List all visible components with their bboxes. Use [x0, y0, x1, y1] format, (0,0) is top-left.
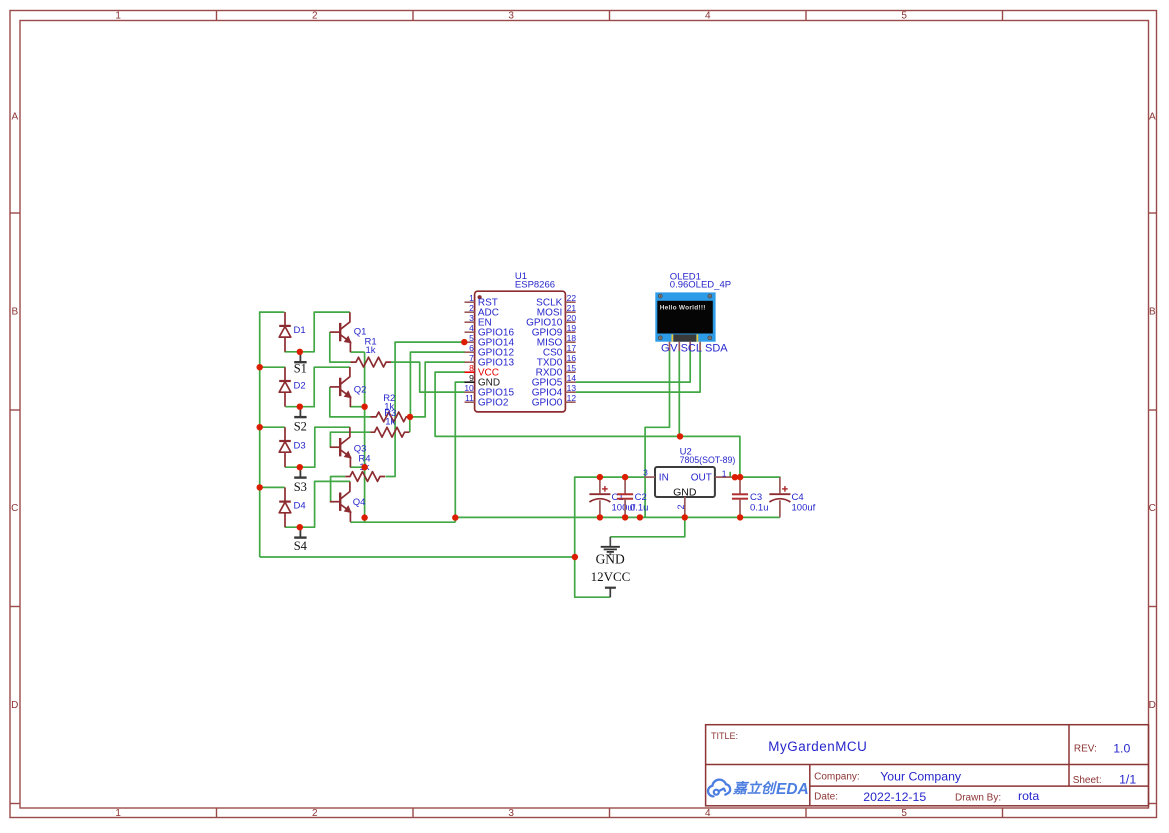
svg-text:GPIO0: GPIO0 — [532, 398, 563, 409]
svg-text:1/1: 1/1 — [1119, 773, 1136, 787]
transistor Q2 — [330, 367, 367, 407]
svg-text:2: 2 — [312, 11, 318, 22]
svg-text:S4: S4 — [294, 539, 308, 553]
svg-text:TITLE:: TITLE: — [711, 731, 738, 741]
svg-text:3: 3 — [508, 808, 514, 819]
wire rail to D4 — [259, 486, 285, 488]
U1 pin 11 GPIO2 — [465, 393, 509, 409]
wire D3 node to Q3 collector — [285, 427, 350, 467]
svg-text:GND: GND — [596, 552, 625, 567]
U1 pin 6 GPIO12 — [465, 343, 515, 359]
svg-text:Company:: Company: — [814, 772, 860, 783]
svg-text:13: 13 — [567, 383, 577, 393]
svg-text:1.0: 1.0 — [1113, 741, 1130, 755]
wire R2 node to pin7 GPIO13 — [410, 362, 466, 417]
U1 pin 9 GND — [465, 373, 501, 389]
wire R3 up to R2 node — [409, 417, 411, 432]
svg-text:5: 5 — [469, 333, 474, 343]
U1 pin 18 MISO — [537, 333, 577, 349]
U1 pin 7 GPIO13 — [465, 353, 515, 369]
svg-text:1: 1 — [469, 293, 474, 303]
power symbol 12VCC — [591, 569, 631, 597]
wire OLED G to ground rail — [645, 351, 669, 517]
capacitor C4 100uf (polarized) — [769, 477, 815, 517]
diode D4 — [279, 487, 305, 527]
junction dots — [257, 339, 744, 560]
svg-text:20: 20 — [567, 313, 577, 323]
wire GPIO5 to OLED SCL — [576, 351, 691, 382]
wire Q2 base to R2 — [330, 387, 371, 417]
U1 pin 8 VCC — [465, 363, 500, 379]
wire Q4 emitter run — [350, 521, 455, 523]
connector S1 — [294, 352, 307, 376]
op-amp U1 ESP8266 body — [475, 271, 566, 412]
svg-text:OUT: OUT — [691, 473, 712, 484]
U1 pin 17 CS0 — [543, 343, 576, 359]
svg-text:嘉立创: 嘉立创 — [732, 780, 778, 796]
svg-text:8: 8 — [469, 363, 474, 373]
transistor Q3 — [330, 427, 367, 467]
svg-text:rota: rota — [1018, 789, 1039, 803]
svg-text:SCL: SCL — [681, 343, 702, 355]
svg-text:D1: D1 — [294, 325, 306, 336]
svg-text:D: D — [11, 700, 18, 711]
U1 pin 3 EN — [465, 313, 492, 329]
svg-text:ESP8266: ESP8266 — [515, 279, 555, 290]
U1 pin 16 TXD0 — [537, 353, 577, 369]
U1 pin 1 RST — [465, 293, 498, 309]
svg-text:D4: D4 — [294, 501, 306, 512]
svg-text:V: V — [670, 343, 678, 355]
U1 pin 15 RXD0 — [536, 363, 577, 379]
svg-text:0.1u: 0.1u — [630, 502, 649, 513]
svg-text:Sheet:: Sheet: — [1073, 775, 1102, 786]
wire GPIO4 to OLED SDA — [576, 351, 701, 392]
U1 pin 20 GPIO10 — [526, 313, 576, 329]
svg-text:18: 18 — [567, 333, 577, 343]
regulator U2 7805(SOT-89) body — [655, 446, 735, 498]
title block — [706, 725, 1149, 806]
svg-text:1k: 1k — [366, 345, 376, 356]
svg-text:11: 11 — [465, 393, 474, 403]
svg-text:A: A — [1149, 112, 1156, 123]
svg-text:Your Company: Your Company — [880, 770, 962, 784]
U2 pin 1 OUT — [715, 468, 731, 478]
U2 pin 2 GND — [676, 497, 686, 518]
svg-text:B: B — [1149, 307, 1156, 318]
U1 pin 12 GPIO0 — [532, 393, 577, 409]
svg-text:D: D — [1149, 700, 1156, 711]
svg-text:D3: D3 — [294, 440, 306, 451]
wire rail to D3 — [259, 426, 285, 428]
svg-text:22: 22 — [567, 293, 577, 303]
wire rail to D1 — [259, 311, 285, 313]
wire R1 to pin10 GPIO15 — [391, 362, 465, 392]
svg-text:S2: S2 — [294, 420, 307, 434]
svg-text:17: 17 — [567, 343, 577, 353]
connector S2 — [294, 407, 307, 434]
capacitor C2 0.1u — [617, 477, 648, 517]
wire R4 to pin5 GPIO14 — [385, 342, 464, 476]
svg-text:2022-12-15: 2022-12-15 — [863, 790, 926, 804]
svg-text:D2: D2 — [294, 380, 306, 391]
U1 pin 5 GPIO14 — [465, 333, 515, 349]
svg-text:G: G — [661, 343, 670, 355]
wire Q2 emitter to bus — [350, 406, 365, 408]
U1 pin 2 ADC — [465, 303, 500, 319]
svg-text:MyGardenMCU: MyGardenMCU — [768, 739, 867, 754]
svg-text:6: 6 — [469, 343, 474, 353]
svg-text:Date:: Date: — [814, 792, 838, 803]
svg-text:B: B — [11, 307, 18, 318]
wire ground rail under caps — [455, 516, 780, 518]
svg-text:21: 21 — [567, 303, 577, 313]
display module OLED1 0.96OLED_4P — [655, 272, 731, 342]
wire 7805 pin2 to GND symbol — [610, 517, 685, 536]
wire D1 node to Q1 collector — [284, 312, 350, 352]
transistor Q1 — [330, 312, 367, 352]
diode D1 — [279, 312, 305, 352]
svg-text:2: 2 — [469, 303, 474, 313]
U2 pin 3 IN — [643, 467, 655, 477]
wire stub near pin1 — [729, 472, 731, 477]
svg-text:C: C — [1149, 503, 1156, 514]
U1 pin 21 MOSI — [537, 303, 577, 319]
wire pin9 GND down — [455, 382, 465, 522]
U1 pin 14 GPIO5 — [532, 373, 577, 389]
diode D2 — [279, 367, 305, 407]
wire D4 node to Q4 collector — [285, 481, 351, 527]
svg-text:2: 2 — [676, 504, 686, 509]
svg-text:5: 5 — [901, 808, 907, 819]
wire Q1 base to R1 — [330, 332, 351, 362]
svg-text:1k: 1k — [385, 417, 395, 428]
svg-text:A: A — [11, 112, 18, 123]
svg-text:1: 1 — [115, 11, 121, 22]
ground symbol GND — [596, 537, 625, 567]
resistor R2 1k — [371, 393, 412, 422]
svg-text:Drawn By:: Drawn By: — [955, 792, 1001, 803]
wire bottom 12V run — [260, 556, 575, 558]
wire Q3 base to R3 — [330, 432, 370, 447]
U1 pin 4 GPIO16 — [465, 323, 515, 339]
wire D2 node to Q2 collector — [285, 367, 350, 407]
OLED1 pin V — [670, 342, 679, 355]
resistor R4 1k — [345, 453, 385, 481]
svg-text:3: 3 — [643, 467, 648, 477]
resistor R1 1k — [351, 336, 392, 367]
wire R2 node to pin6 GPIO12 — [410, 352, 465, 417]
svg-text:100uf: 100uf — [792, 502, 816, 513]
svg-text:12VCC: 12VCC — [591, 569, 631, 584]
svg-text:Q2: Q2 — [354, 385, 367, 396]
svg-text:S3: S3 — [294, 480, 307, 494]
svg-text:12: 12 — [567, 393, 577, 403]
svg-text:2: 2 — [312, 808, 318, 819]
U1 pin 19 GPIO9 — [532, 323, 577, 339]
svg-text:10: 10 — [464, 383, 474, 393]
svg-text:5: 5 — [901, 11, 907, 22]
wire 7805 OUT to C4 — [731, 476, 780, 478]
svg-text:9: 9 — [469, 373, 474, 383]
svg-text:1: 1 — [115, 808, 121, 819]
capacitor C1 100uf (polarized) — [589, 477, 635, 517]
svg-text:IN: IN — [659, 472, 669, 483]
svg-text:GPIO2: GPIO2 — [478, 398, 509, 409]
svg-text:REV:: REV: — [1074, 743, 1097, 754]
wire VCC net pin8 to 7805 OUT — [435, 372, 740, 477]
OLED1 pin SCL — [681, 342, 702, 355]
svg-text:EDA: EDA — [776, 781, 809, 798]
svg-text:3: 3 — [469, 313, 474, 323]
svg-text:7: 7 — [469, 353, 474, 363]
svg-text:0.96OLED_4P: 0.96OLED_4P — [670, 279, 731, 290]
U1 pin 22 SCLK — [536, 293, 576, 309]
transistor Q4 — [330, 482, 366, 522]
svg-text:SDA: SDA — [705, 343, 728, 355]
svg-text:7805(SOT-89): 7805(SOT-89) — [680, 455, 736, 465]
wire rail to D2 — [259, 366, 285, 368]
svg-text:3: 3 — [508, 11, 514, 22]
svg-text:4: 4 — [705, 808, 711, 819]
logo JLC EDA — [708, 780, 809, 798]
svg-text:4: 4 — [705, 11, 711, 22]
svg-text:1: 1 — [722, 468, 727, 478]
wire Q1 emitter to bus — [350, 351, 364, 353]
OLED1 pin SDA — [700, 342, 728, 355]
capacitor C3 0.1u — [732, 477, 769, 517]
svg-text:14: 14 — [567, 373, 577, 383]
svg-text:C: C — [11, 503, 18, 514]
U1 pin 13 GPIO4 — [532, 383, 577, 399]
svg-text:S1: S1 — [294, 362, 307, 376]
diode D3 — [279, 427, 305, 467]
connector S3 — [294, 467, 307, 494]
svg-text:Q4: Q4 — [353, 497, 366, 508]
svg-text:0.1u: 0.1u — [750, 502, 769, 513]
wire Q4 base to R4 — [331, 477, 346, 502]
wire left rail vertical — [259, 312, 261, 557]
wire OLED V to VCC net — [678, 351, 680, 436]
connector S4 — [294, 527, 308, 553]
svg-text:16: 16 — [567, 353, 577, 363]
wire emitter bus vertical — [364, 352, 366, 522]
wire Q3 emitter to bus — [350, 466, 365, 468]
resistor R3 1k — [370, 408, 409, 437]
svg-text:Hello World!!!: Hello World!!! — [660, 305, 706, 312]
svg-text:4: 4 — [469, 323, 474, 333]
svg-text:19: 19 — [567, 323, 577, 333]
wire 12V to 7805 IN — [575, 477, 645, 597]
U1 pin 10 GPIO15 — [464, 383, 514, 399]
svg-text:15: 15 — [567, 363, 577, 373]
OLED1 pin G — [661, 342, 670, 355]
